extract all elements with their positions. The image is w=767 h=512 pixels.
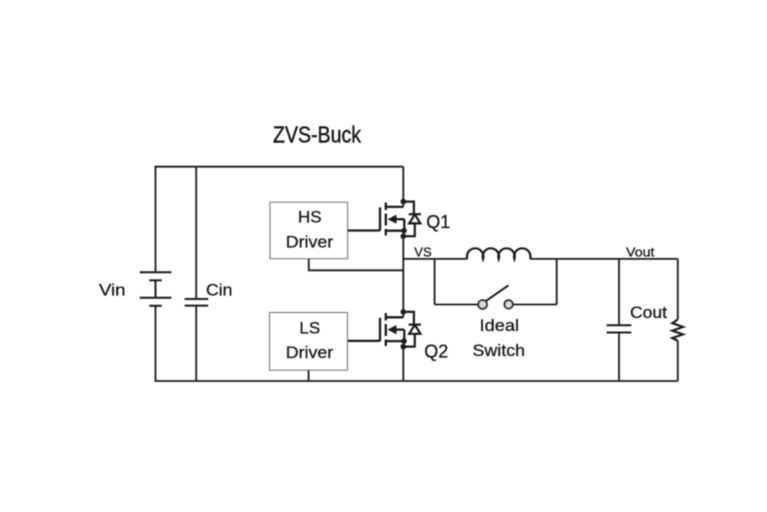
svg-text:Vin: Vin: [99, 281, 126, 300]
wire HS driver reference to VS: [309, 259, 404, 271]
wire bottom rail: [155, 380, 678, 382]
svg-text:Q2: Q2: [424, 341, 448, 361]
resistor R1 load: [672, 320, 683, 341]
svg-text:Driver: Driver: [286, 232, 334, 251]
diode D1 body diode of Q1: [409, 214, 421, 223]
wire switch branch right vertical: [556, 259, 558, 305]
svg-text:Vout: Vout: [626, 245, 655, 260]
wire Q2 diode branch bottom: [403, 334, 415, 347]
wire Q1 diode branch bottom: [403, 223, 415, 236]
wire switch branch bottom left: [435, 304, 478, 306]
wire top rail: [155, 166, 404, 168]
transistor Q1: [380, 203, 404, 236]
switch contact right: [504, 300, 512, 308]
svg-text:Ideal: Ideal: [480, 316, 520, 335]
battery Vin: [140, 272, 172, 306]
wire Cout top lead: [618, 259, 620, 325]
wire Q1 drain from top rail: [402, 167, 404, 207]
svg-text:ZVS-Buck: ZVS-Buck: [273, 122, 361, 148]
svg-text:Cout: Cout: [630, 303, 667, 322]
transistor Q2: [380, 313, 404, 346]
Q1 source node dot: [401, 228, 407, 234]
diode D2 body diode of Q2: [409, 325, 421, 334]
capacitor Cout: [607, 325, 632, 332]
Q1 diode node dot: [401, 233, 407, 239]
capacitor Cin: [185, 299, 209, 306]
wire Vin top lead: [155, 167, 157, 272]
svg-text:LS: LS: [299, 319, 320, 338]
svg-text:Switch: Switch: [473, 341, 526, 360]
wire Cout bottom lead: [618, 333, 620, 382]
wire VS horizontal to inductor: [403, 258, 467, 260]
Q2 diode node dot: [401, 344, 407, 350]
Q2 drain node dot: [401, 309, 407, 315]
wire Cin bottom lead: [195, 306, 197, 381]
svg-text:HS: HS: [298, 208, 322, 227]
svg-text:Driver: Driver: [286, 343, 334, 362]
box HS Driver: [270, 202, 348, 259]
wire inductor to Vout corner: [530, 258, 678, 260]
wire VS vertical Q1 source to Q2 drain: [402, 236, 404, 317]
wire switch branch left vertical: [434, 259, 436, 305]
Q2 source node dot: [401, 338, 407, 344]
svg-text:VS: VS: [414, 244, 432, 259]
wire Q2 source to ground rail: [402, 347, 404, 381]
wire HS gate lead: [348, 229, 380, 231]
box LS Driver: [270, 313, 348, 371]
wire Q1 diode branch top: [403, 202, 414, 215]
wire switch branch bottom right: [513, 304, 557, 306]
Q2 body arrow: [388, 325, 397, 334]
svg-text:Cin: Cin: [206, 281, 233, 300]
wire right vertical bottom: [677, 341, 679, 381]
wire LS driver reference to ground rail: [308, 370, 310, 381]
wire Vin bottom lead: [155, 306, 157, 381]
wire Cin top lead: [195, 167, 197, 299]
inductor L1: [467, 248, 531, 259]
Q1 body arrow: [388, 215, 397, 224]
wire right vertical top: [677, 259, 679, 320]
svg-text:Q1: Q1: [426, 212, 450, 232]
Q1 drain node dot: [401, 199, 407, 205]
wire Q2 diode branch top: [403, 312, 414, 325]
switch lever: [486, 285, 509, 301]
switch contact left: [478, 300, 487, 309]
wire LS gate lead: [348, 340, 381, 342]
